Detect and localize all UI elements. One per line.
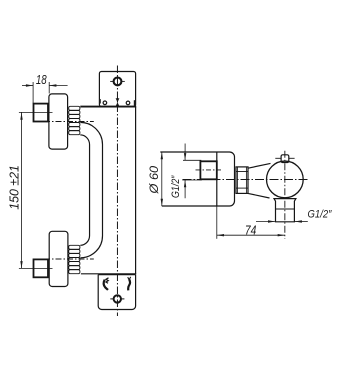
bottom valve nut bbox=[34, 259, 49, 277]
dim diameter 60 line bbox=[161, 152, 163, 206]
dim 18 ext lines bbox=[32, 82, 34, 103]
outlet box bbox=[98, 275, 135, 310]
svg-text:150 ±21: 150 ±21 bbox=[7, 165, 21, 210]
plate edge mark right bbox=[134, 100, 136, 106]
cold water mark bbox=[128, 279, 130, 290]
svg-text:74: 74 bbox=[245, 223, 257, 237]
dim G1/2 outlet bbox=[256, 221, 275, 223]
knob centerline bbox=[284, 151, 286, 239]
knob circle bbox=[267, 161, 304, 198]
svg-text:Ø 60: Ø 60 bbox=[147, 166, 161, 195]
column bottom line bbox=[81, 273, 136, 275]
top knob bbox=[281, 155, 289, 163]
screw hole left bbox=[103, 101, 107, 105]
plate screw U1 bbox=[114, 78, 122, 86]
svg-text:18: 18 bbox=[36, 72, 47, 87]
wall plate bbox=[99, 72, 135, 107]
cone neck top wire bbox=[248, 163, 271, 168]
supply pipe inner wire bbox=[80, 135, 89, 245]
dim 74 ext lines bbox=[216, 207, 218, 239]
supply pipe outer wire bbox=[80, 122, 102, 257]
dim G1/2 inlet arrows bbox=[184, 144, 186, 161]
side view main axis bbox=[183, 179, 308, 181]
box screw bbox=[114, 295, 121, 302]
screw hole right bbox=[126, 101, 130, 105]
plate strip bottom line bbox=[80, 106, 136, 108]
center mark hourglass bbox=[116, 98, 120, 106]
bottom valve handle bbox=[49, 231, 68, 286]
svg-text:G1/2″: G1/2″ bbox=[170, 175, 182, 198]
dim 18 line bbox=[22, 85, 33, 87]
hex nut side view bbox=[236, 167, 248, 194]
inlet square bbox=[200, 161, 216, 179]
top valve centerline bbox=[44, 121, 94, 123]
hot water mark bbox=[104, 280, 108, 290]
dim 150 line bbox=[21, 113, 23, 269]
dim G1/2 inlet ext lines bbox=[183, 159, 201, 161]
bottom valve centerline bbox=[44, 258, 94, 260]
bottom valve extension line bbox=[19, 267, 53, 269]
vertical centerline bbox=[116, 66, 118, 317]
plate edge mark left bbox=[99, 99, 101, 103]
cone neck bottom wire bbox=[248, 193, 270, 198]
side body bbox=[160, 152, 234, 206]
dim 74 line bbox=[217, 234, 285, 236]
top valve handle bbox=[49, 94, 68, 149]
svg-text:G1/2″: G1/2″ bbox=[308, 208, 333, 220]
inlet centerline bbox=[196, 169, 222, 171]
column right edge bbox=[135, 107, 137, 274]
bottom valve ribs bbox=[69, 245, 80, 249]
outlet collar bbox=[274, 199, 296, 222]
top valve ribs bbox=[69, 106, 80, 110]
top valve extension line bbox=[19, 111, 53, 113]
top valve nut bbox=[34, 104, 49, 122]
